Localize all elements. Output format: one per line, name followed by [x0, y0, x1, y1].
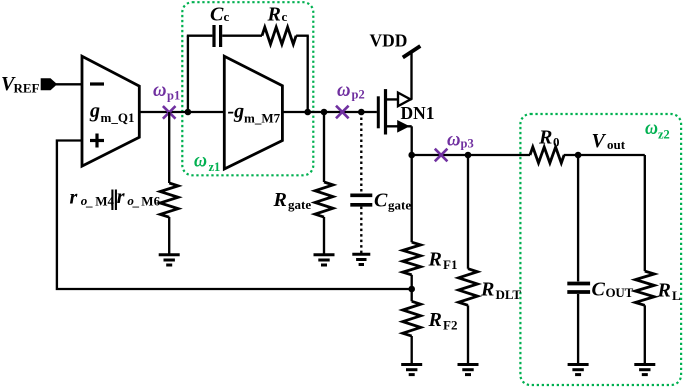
- svg-text:C: C: [592, 279, 606, 301]
- wire resistor to ground: [168, 217, 170, 254]
- svg-text:R: R: [428, 309, 442, 331]
- resistor RDLT: [459, 269, 478, 306]
- svg-text:R: R: [267, 4, 281, 26]
- node omega_p2 X marker: [336, 106, 349, 119]
- transistor DN1 source line: [387, 125, 412, 127]
- wire ro_M4||ro_M6 branch down: [168, 112, 170, 183]
- svg-text:M6: M6: [141, 193, 160, 208]
- junction dot COUT branch / Vout node: [575, 152, 582, 159]
- wire Cc/Rc feedback right vertical: [307, 36, 309, 112]
- wire op-amp output to -gm_M7 input: [139, 111, 224, 113]
- wire feedback top left segment: [187, 35, 213, 37]
- transistor DN1 drain line: [387, 98, 412, 100]
- op-amp U1 gm_Q1: [82, 56, 139, 166]
- wire RF1 branch down: [411, 155, 413, 242]
- op-amp minus sign: [90, 82, 104, 85]
- svg-text:z1: z1: [209, 160, 221, 174]
- junction dot at output node: [408, 152, 415, 159]
- wire Cgate dashed upper: [360, 112, 362, 193]
- green dashed box omega_z2 region: [520, 114, 681, 385]
- node A junction dot at Cc branch: [185, 109, 192, 116]
- op-amp plus sign: [90, 134, 104, 148]
- wire R0 to Vout: [564, 154, 645, 156]
- capacitor Cgate: [350, 195, 372, 205]
- ground under RL: [634, 365, 655, 375]
- wire RL branch down: [644, 155, 646, 271]
- junction dot Cgate branch: [358, 109, 365, 116]
- transistor DN1 channel bar: [384, 89, 387, 134]
- svg-text:ω: ω: [194, 150, 207, 172]
- svg-text:R: R: [480, 279, 494, 301]
- green dashed box omega_z1 region: [182, 2, 313, 175]
- resistor Rgate: [315, 182, 333, 217]
- svg-text:R: R: [273, 189, 287, 211]
- svg-text:R: R: [657, 280, 671, 302]
- svg-text:r: r: [117, 186, 125, 208]
- svg-text:C: C: [210, 4, 224, 26]
- wire RDLT branch down: [467, 155, 469, 269]
- ground under ro resistor: [159, 255, 180, 265]
- ground under Rgate: [314, 255, 335, 265]
- svg-text:_: _: [85, 194, 93, 209]
- wire Cc/Rc feedback left vertical: [187, 36, 189, 112]
- svg-text:DLT: DLT: [496, 287, 522, 302]
- wire output bus to R0: [412, 154, 530, 156]
- resistor RF1: [403, 242, 421, 275]
- svg-text:R: R: [538, 127, 552, 149]
- resistor RL: [635, 271, 654, 305]
- svg-text:L: L: [672, 288, 681, 303]
- capacitor Cc: [214, 25, 221, 47]
- ground under RF2: [401, 365, 422, 375]
- transistor DN1 source arrow: [397, 120, 410, 133]
- svg-text:c: c: [224, 9, 230, 24]
- node omega_p1 X marker: [163, 106, 176, 119]
- svg-text:gate: gate: [288, 197, 311, 212]
- svg-text:p3: p3: [461, 137, 474, 151]
- svg-text:0: 0: [553, 135, 560, 150]
- svg-text:p2: p2: [352, 88, 365, 102]
- junction dot feedback node: [408, 286, 415, 293]
- svg-text:r: r: [70, 186, 78, 208]
- svg-text:ω: ω: [447, 129, 461, 151]
- capacitor COUT: [567, 284, 590, 293]
- svg-text:g: g: [89, 100, 100, 122]
- wire op-amp plus input feedback: left, down, right to RF1/RF2 node: [57, 141, 412, 290]
- svg-text:F1: F1: [443, 257, 457, 272]
- inverting stage -gm_M7: [224, 56, 282, 169]
- power VDD slash: [403, 46, 421, 58]
- wire VREF to op-amp minus input: [56, 83, 81, 85]
- transistor DN1 gate bar: [377, 96, 380, 128]
- svg-text:-g: -g: [228, 101, 245, 123]
- svg-text:m_Q1: m_Q1: [101, 110, 135, 125]
- svg-text:gate: gate: [388, 198, 411, 213]
- transistor DN1 hollow arrow: [398, 93, 411, 107]
- wire source down to output bus: [411, 126, 413, 155]
- ground under COUT: [568, 365, 589, 375]
- wire RF2 to ground: [411, 336, 413, 363]
- ground under RDLT: [458, 365, 479, 375]
- wire RL to ground: [644, 305, 646, 363]
- wire RDLT to ground: [467, 305, 469, 363]
- svg-text:ω: ω: [645, 117, 658, 139]
- resistor R0: [530, 147, 564, 163]
- svg-text:DN1: DN1: [401, 103, 435, 123]
- svg-text:ω: ω: [153, 79, 167, 101]
- svg-text:C: C: [374, 190, 388, 212]
- svg-text:out: out: [607, 137, 626, 152]
- svg-text:ω: ω: [337, 79, 351, 101]
- resistor ro_M4||ro_M6: [160, 183, 178, 217]
- input port VREF tag: [41, 78, 58, 90]
- wire COUT branch down: [577, 155, 579, 281]
- wire COUT to ground: [577, 294, 579, 363]
- svg-text:REF: REF: [14, 81, 40, 96]
- resistor Rc: [262, 27, 296, 44]
- wire Rgate to ground: [323, 217, 325, 254]
- junction dot Cc/Rc right connection: [304, 109, 311, 116]
- svg-text:c: c: [282, 9, 288, 24]
- svg-text:OUT: OUT: [606, 285, 634, 300]
- svg-text:m_M7: m_M7: [244, 111, 281, 126]
- svg-text:F2: F2: [443, 318, 457, 333]
- wire Rgate branch down: [323, 112, 325, 182]
- wire drain to VDD: [410, 52, 412, 100]
- junction dot Rgate branch: [321, 109, 328, 116]
- svg-text:R: R: [428, 249, 442, 271]
- svg-text:_: _: [132, 193, 140, 208]
- svg-text:p1: p1: [167, 89, 180, 103]
- junction dot RDLT branch: [465, 152, 472, 159]
- wire Rc to right vertical: [296, 35, 309, 37]
- svg-text:V: V: [592, 130, 607, 152]
- wire -gm_M7 output to gate: [282, 111, 377, 113]
- wire between Cc and Rc: [222, 35, 262, 37]
- node omega_p3 X marker: [435, 149, 448, 162]
- resistor RF2: [403, 301, 421, 336]
- wire RF1 to node: [411, 275, 413, 302]
- wire Cgate dashed lower: [360, 207, 362, 253]
- svg-text:z2: z2: [658, 128, 670, 142]
- svg-text:VDD: VDD: [370, 31, 408, 51]
- ground under Cgate: [352, 254, 370, 264]
